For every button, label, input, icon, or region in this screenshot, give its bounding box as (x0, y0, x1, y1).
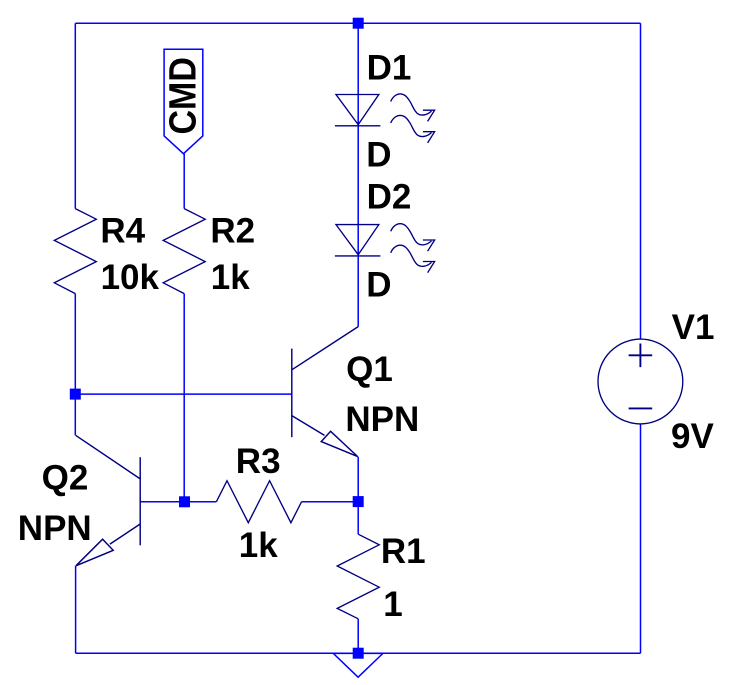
svg-text:D: D (366, 265, 391, 304)
svg-text:R1: R1 (381, 532, 426, 571)
svg-text:NPN: NPN (345, 400, 419, 439)
svg-text:9V: 9V (671, 417, 714, 456)
svg-text:1k: 1k (211, 258, 250, 297)
svg-text:Q1: Q1 (346, 350, 393, 389)
svg-text:1: 1 (383, 585, 402, 624)
svg-text:R4: R4 (100, 211, 145, 250)
svg-text:D2: D2 (367, 177, 412, 216)
svg-text:D1: D1 (367, 49, 412, 88)
svg-text:Q2: Q2 (42, 458, 89, 497)
svg-text:D: D (366, 135, 391, 174)
svg-text:10k: 10k (101, 258, 160, 297)
svg-text:CMD: CMD (161, 57, 204, 134)
svg-text:V1: V1 (672, 308, 715, 347)
svg-text:R3: R3 (236, 442, 281, 481)
svg-text:NPN: NPN (18, 509, 92, 548)
svg-text:1k: 1k (239, 526, 278, 565)
svg-text:R2: R2 (210, 211, 255, 250)
